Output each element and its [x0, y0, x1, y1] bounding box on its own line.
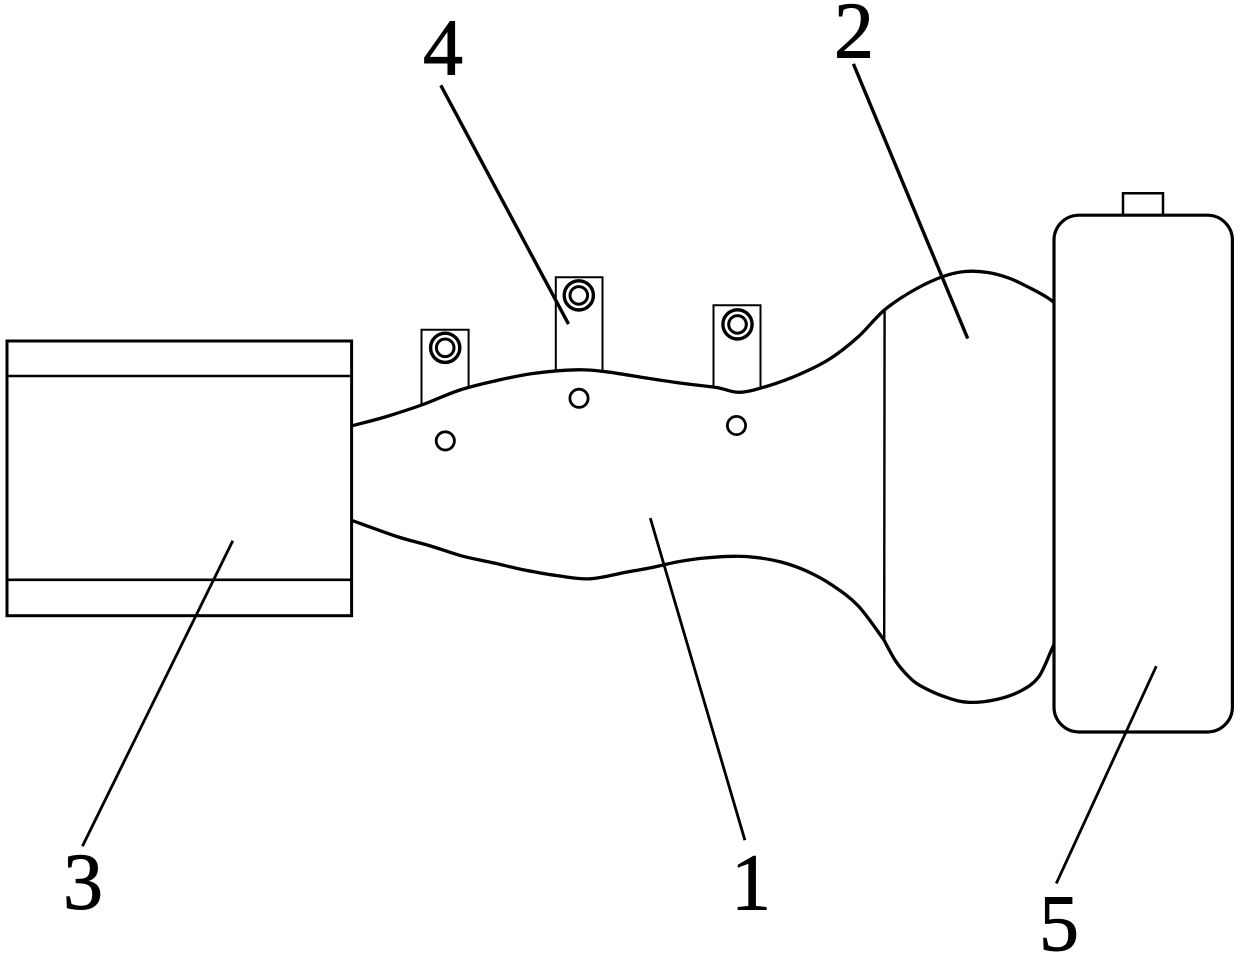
bulb 2 separator line [883, 310, 886, 640]
connector lug on block 5 [1123, 193, 1163, 217]
svg-text:4: 4 [423, 5, 463, 93]
mounting tab 4c (right clip) [714, 305, 761, 398]
screw hole B [570, 389, 588, 407]
housing 3 (left box) [7, 341, 352, 616]
mounting tab 4b (middle clip) [556, 277, 603, 384]
block 5 (rounded box) [1054, 215, 1232, 732]
svg-text:5: 5 [1039, 880, 1079, 955]
housing 3 upper inner line [7, 375, 352, 378]
svg-text:2: 2 [834, 0, 874, 76]
screw hole C [727, 416, 745, 434]
screw hole A [436, 432, 454, 450]
leader line 2 [853, 64, 967, 339]
leader line 3 [82, 541, 232, 846]
svg-text:3: 3 [63, 839, 103, 927]
leader line 4 [441, 85, 569, 324]
body 1 white fill (covers tab stems below outline) [352, 271, 1066, 702]
body 1 top outline [352, 271, 1066, 426]
svg-text:1: 1 [731, 840, 771, 928]
leader line 1 [650, 518, 745, 840]
body 1 bottom outline [352, 521, 884, 641]
bulb 2 bottom outline [884, 628, 1062, 702]
mounting tab 4a (left clip) [422, 330, 469, 414]
leader line 5 [1056, 666, 1156, 883]
housing 3 lower inner line [7, 578, 352, 581]
